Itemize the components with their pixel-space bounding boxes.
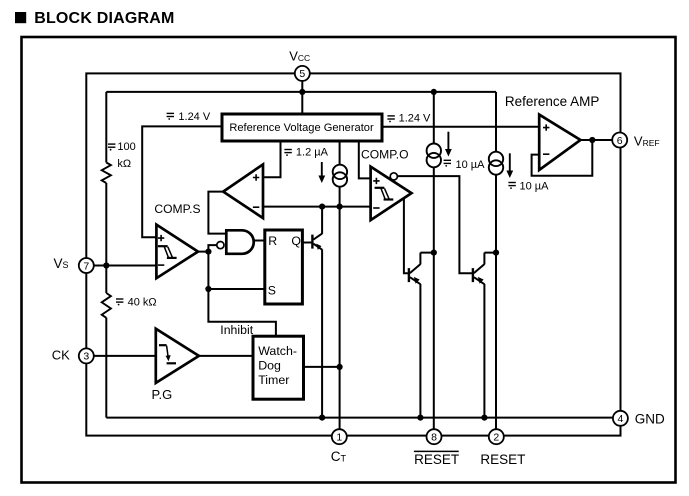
svg-text:5: 5 [299, 68, 305, 80]
svg-text:3: 3 [83, 351, 89, 363]
svg-text:7: 7 [83, 260, 89, 272]
svg-text:Watch-: Watch- [258, 344, 297, 358]
svg-text:RESET: RESET [480, 452, 525, 467]
svg-text:GND: GND [635, 411, 665, 426]
svg-text:BLOCK DIAGRAM: BLOCK DIAGRAM [34, 10, 174, 27]
svg-text:Q: Q [291, 234, 301, 248]
svg-text:Inhibit: Inhibit [220, 323, 253, 337]
svg-text:Dog: Dog [258, 358, 281, 372]
svg-text:RESET: RESET [414, 452, 459, 467]
svg-text:Timer: Timer [258, 373, 289, 387]
svg-text:1.24 V: 1.24 V [399, 113, 431, 125]
svg-text:6: 6 [617, 135, 623, 147]
svg-text:1: 1 [336, 432, 342, 444]
svg-text:kΩ: kΩ [117, 158, 131, 170]
svg-text:10 µA: 10 µA [520, 180, 550, 192]
svg-text:CK: CK [52, 347, 70, 362]
svg-text:8: 8 [431, 432, 437, 444]
svg-text:COMP.S: COMP.S [154, 202, 200, 216]
svg-text:10 µA: 10 µA [456, 159, 486, 171]
svg-text:S: S [268, 284, 276, 298]
svg-text:COMP.O: COMP.O [361, 147, 409, 161]
svg-text:4: 4 [617, 413, 623, 425]
svg-text:1.24 V: 1.24 V [178, 111, 210, 123]
svg-text:Reference AMP: Reference AMP [505, 94, 600, 109]
svg-text:P.G: P.G [152, 387, 173, 402]
svg-text:R: R [268, 234, 277, 248]
svg-text:1.2 µA: 1.2 µA [296, 146, 329, 158]
svg-text:40 kΩ: 40 kΩ [128, 297, 157, 309]
svg-text:100: 100 [117, 141, 135, 153]
svg-text:2: 2 [493, 432, 499, 444]
svg-text:Reference Voltage Generator: Reference Voltage Generator [229, 122, 374, 134]
